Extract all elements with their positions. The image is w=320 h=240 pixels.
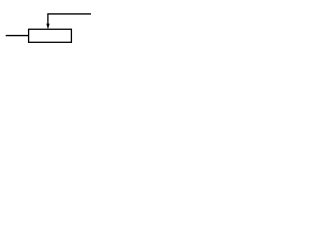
arrowhead (wiper arrow pointing down into resistor): [46, 24, 49, 30]
resistor body (potentiometer track): [29, 29, 72, 42]
wire (left lead into resistor): [6, 35, 29, 37]
wire (wiper stem up and to the right): [48, 14, 91, 25]
